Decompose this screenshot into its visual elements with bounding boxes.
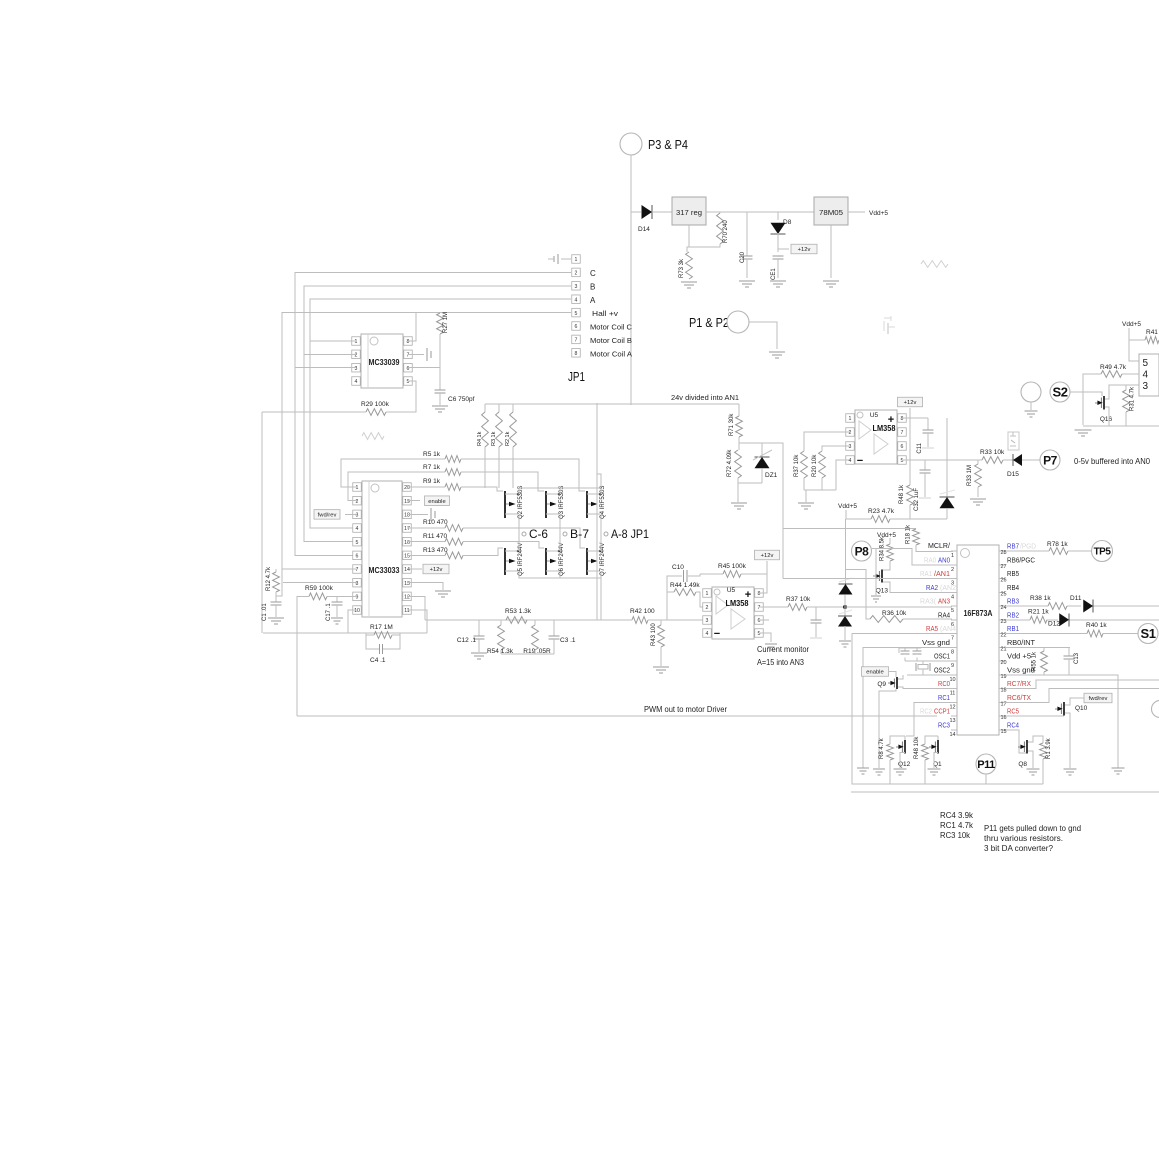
resistor R18 1k: [906, 524, 920, 545]
JP1 pin labels: [590, 269, 633, 359]
wire hall +v: [276, 313, 571, 596]
wire OSC circuit: [899, 648, 951, 675]
wire hall A: [310, 299, 571, 341]
capacitor C20: [740, 212, 753, 278]
net label Vdd+5 mid: [838, 503, 857, 510]
ground under C17: [331, 618, 343, 624]
wire divider node: [739, 437, 783, 579]
wire R9 to Q2 gate: [461, 487, 503, 491]
wire R37v R20 bottoms: [804, 460, 850, 490]
net label Vdd+5 P8: [877, 532, 896, 539]
svg-text:RC3 10k: RC3 10k: [940, 831, 971, 840]
wire MC33039 pin2: [304, 353, 356, 355]
resistor R11 470: [423, 533, 463, 545]
svg-text:fwd/rev: fwd/rev: [1089, 696, 1108, 702]
svg-text:RB1: RB1: [1007, 626, 1019, 633]
wire R13 to Q5 gate: [463, 548, 503, 555]
feedback R45 bracket: [700, 574, 767, 593]
svg-text:6: 6: [356, 554, 359, 560]
clamp diode upper: [839, 519, 853, 595]
svg-text:D15: D15: [1007, 471, 1019, 478]
svg-text:+12v: +12v: [904, 400, 917, 406]
svg-text:7: 7: [901, 430, 904, 436]
resistor R8 4.7k: [879, 736, 905, 784]
svg-text:MCLR/: MCLR/: [928, 543, 950, 550]
svg-text:10: 10: [354, 608, 360, 614]
resistor R5 1k: [423, 451, 461, 462]
wire column C-6: [518, 515, 520, 551]
svg-text:Q16: Q16: [1100, 416, 1113, 423]
svg-text:B-7: B-7: [570, 527, 589, 541]
net label enable Q9: [862, 667, 889, 677]
wire RB3 out: [1005, 605, 1159, 607]
ground under R37v: [798, 503, 814, 509]
resistor R33 10k: [980, 449, 1005, 463]
wire column A-8: [600, 515, 602, 551]
svg-text:D14: D14: [638, 226, 650, 233]
svg-text:OSC2: OSC2: [934, 667, 950, 674]
svg-text:A-8 JP1: A-8 JP1: [611, 527, 649, 541]
ground under Q1: [928, 769, 941, 775]
text 24v divided: [671, 393, 739, 402]
svg-text:Motor Coil A: Motor Coil A: [590, 350, 632, 359]
resistor R71 30k: [729, 413, 742, 437]
svg-text:C-6: C-6: [529, 527, 548, 541]
JP1 label: [568, 370, 585, 384]
svg-text:R29 100k: R29 100k: [361, 401, 390, 408]
svg-text:R72 4.09k: R72 4.09k: [727, 449, 733, 477]
resistor R10 470: [423, 519, 463, 531]
resistor R48 10k: [914, 736, 938, 784]
svg-text:A: A: [590, 296, 596, 305]
wire MC33033 pin17 to R10: [407, 527, 445, 529]
svg-text:19: 19: [404, 499, 410, 505]
ghost resistor below R29: [362, 433, 384, 440]
wire bottom boundary: [851, 791, 1159, 793]
diode D12: [1048, 613, 1069, 627]
svg-text:R12 4.7k: R12 4.7k: [266, 566, 272, 591]
ground Vss19: [1112, 768, 1125, 774]
svg-text:9: 9: [951, 663, 954, 669]
svg-text:AN3: AN3: [938, 599, 950, 606]
wire 24v vertical rail: [596, 403, 598, 620]
capacitor C1 .01: [262, 602, 282, 621]
resistor R70 240: [717, 212, 729, 246]
svg-text:4: 4: [951, 594, 954, 600]
svg-text:R9 1k: R9 1k: [423, 478, 441, 485]
capacitor C4 .1: [366, 635, 400, 664]
transistor Q5: [504, 543, 524, 576]
svg-text:3: 3: [1143, 381, 1149, 392]
svg-text:2: 2: [951, 567, 954, 573]
svg-text:5: 5: [951, 608, 954, 614]
wire RA5 to DA rail: [852, 633, 951, 635]
svg-text:R11 470: R11 470: [423, 533, 447, 540]
svg-text:AN0: AN0: [938, 557, 950, 564]
wire Q16 rail: [1083, 425, 1159, 427]
capacitor C17 .1: [326, 596, 343, 621]
text RC4 RC1 RC3 values: [940, 811, 974, 840]
svg-text:R18 1k: R18 1k: [906, 524, 912, 544]
svg-text:5: 5: [901, 458, 904, 464]
op-amp U5 current monitor: [703, 587, 764, 640]
svg-text:C4 .1: C4 .1: [370, 657, 386, 664]
resistor R59 100k: [305, 585, 334, 600]
svg-text:+12v: +12v: [798, 247, 811, 253]
svg-text:Hall +v: Hall +v: [592, 309, 618, 318]
svg-text:R40 1k: R40 1k: [1086, 622, 1107, 629]
svg-text:D11: D11: [1070, 595, 1082, 602]
svg-text:RA1: RA1: [920, 571, 932, 578]
wire column B-7: [559, 515, 561, 551]
wire P1P2 to ground: [749, 322, 777, 349]
wire AN1 bundle: [783, 578, 951, 580]
svg-text:R43 100: R43 100: [651, 623, 657, 646]
capacitor C11: [917, 418, 934, 454]
resistor R44 1.49k: [670, 582, 700, 595]
svg-text:LM358: LM358: [726, 598, 749, 608]
crystal: [916, 661, 930, 675]
wire AN1 feed line: [783, 528, 916, 530]
svg-text:1: 1: [355, 339, 358, 345]
ground under C20: [739, 281, 755, 287]
svg-text:U5: U5: [870, 412, 879, 419]
svg-text:4: 4: [706, 631, 709, 637]
transistor Q7: [586, 543, 606, 576]
ground under Q8: [1027, 769, 1040, 775]
JP1 pin1 series cap symbol: [548, 254, 571, 264]
svg-text:12: 12: [404, 595, 410, 601]
svg-text:15: 15: [404, 554, 410, 560]
wire pin5 bracket gnd: [759, 633, 771, 642]
net label fwd/rev Q10: [1084, 693, 1112, 703]
transistor Q16: [1095, 385, 1139, 426]
svg-text:12: 12: [949, 704, 955, 710]
svg-text:3: 3: [356, 513, 359, 519]
resistor R37 10k: [786, 596, 811, 610]
node P8: [852, 541, 872, 561]
svg-text:(AN4: (AN4: [940, 626, 956, 633]
svg-text:C1 .01: C1 .01: [262, 603, 268, 621]
svg-text:RA5: RA5: [926, 626, 938, 633]
capacitor R37 output cap: [810, 607, 822, 638]
resistor R40 1k: [1086, 622, 1107, 637]
svg-text:R53 1.3k: R53 1.3k: [505, 608, 532, 615]
svg-text:RC1: RC1: [938, 695, 950, 702]
wire RC4 to Q8: [1005, 730, 1026, 753]
wire MC33039 pin8 up to hall+v rail: [408, 313, 416, 341]
resistor R34 8.5k: [880, 536, 894, 561]
svg-text:R20 10k: R20 10k: [812, 454, 818, 477]
svg-text:P11: P11: [977, 759, 995, 771]
transistor Q13: [873, 561, 896, 595]
resistor R53 1.3k: [505, 608, 532, 623]
wire R59 left down: [297, 596, 309, 716]
regulator 78M05: [814, 197, 848, 225]
wire hall A to MC33033 pin4: [310, 341, 362, 528]
svg-text:8: 8: [575, 351, 578, 357]
svg-text:RB0/INT: RB0/INT: [1007, 640, 1036, 647]
wire pin10 rail to R17: [348, 632, 427, 634]
wire R20 top to pin3: [822, 446, 850, 451]
resistor R29 100k: [361, 401, 390, 415]
wire R37v top to pin2: [804, 432, 850, 451]
wire MC33033 pin8: [283, 582, 357, 584]
wire R10 to Q7 gate: [463, 528, 585, 548]
port circle right edge: [1152, 701, 1159, 718]
svg-text:MC33033: MC33033: [369, 565, 400, 575]
wire R7 to Q3 gate: [461, 472, 544, 491]
svg-text:S1: S1: [1141, 626, 1156, 641]
resistor R23 4.7k: [868, 508, 895, 522]
svg-text:R31 4.7k: R31 4.7k: [1130, 386, 1136, 411]
MC33039 pin7 decoupling symbol: [408, 348, 431, 361]
resistor R2 1k: [505, 404, 516, 488]
svg-text:Vss gnd: Vss gnd: [922, 640, 950, 647]
wire P11 stem: [985, 774, 987, 784]
wire Vss pin19: [1005, 675, 1118, 768]
svg-text:1: 1: [951, 553, 954, 559]
wire sense rail: [425, 619, 632, 621]
transistor Q4: [586, 486, 606, 519]
svg-text:−: −: [857, 455, 863, 467]
svg-text:6: 6: [575, 324, 578, 330]
svg-text:Q9: Q9: [877, 681, 886, 688]
wire R5 to Q4 gate: [461, 459, 585, 491]
svg-text:thru various resistors.: thru various resistors.: [984, 834, 1063, 843]
svg-text:1: 1: [356, 485, 359, 491]
text 0-5v buffered: [1074, 456, 1150, 466]
resistor R38 1k: [1030, 595, 1067, 609]
svg-text:A=15 into AN3: A=15 into AN3: [757, 658, 805, 667]
transistor Q3: [545, 486, 565, 519]
ground under C6: [432, 406, 448, 412]
svg-text:16F873A: 16F873A: [964, 608, 993, 618]
svg-text:S2: S2: [1053, 385, 1068, 400]
wire RC7/RX out: [1005, 680, 1159, 689]
svg-text:R73 3k: R73 3k: [679, 258, 685, 278]
wire pin5 out: [902, 459, 982, 461]
svg-text:3: 3: [706, 618, 709, 624]
svg-text:JP1: JP1: [568, 370, 585, 384]
IC 16F873A: [949, 545, 1006, 738]
svg-text:13: 13: [949, 718, 955, 724]
resistor R20 10k: [812, 451, 825, 478]
wire AN0 bundle: [872, 549, 951, 565]
capacitor C12 .1: [457, 620, 485, 652]
wire R11 to Q6 gate: [463, 542, 544, 548]
svg-text:R8 4.7k: R8 4.7k: [879, 737, 885, 759]
resistor R27 1M: [437, 312, 449, 368]
wire 78M05 out: [848, 211, 865, 213]
svg-text:R5 1k: R5 1k: [423, 451, 441, 458]
svg-text:RC0: RC0: [938, 681, 950, 688]
svg-text:Q13: Q13: [876, 588, 889, 595]
svg-text:P7: P7: [1043, 453, 1058, 467]
wire 317reg out: [706, 211, 814, 213]
resistor R48 1k: [899, 418, 913, 519]
ground under CE1: [770, 281, 786, 287]
svg-text:5: 5: [575, 311, 578, 317]
ground under R73: [681, 282, 697, 288]
svg-text:RA2: RA2: [926, 585, 938, 592]
resistor R45 100k: [718, 563, 747, 577]
diode D15: [1007, 454, 1040, 478]
svg-text:5: 5: [1143, 358, 1149, 369]
svg-text:R59 100k: R59 100k: [305, 585, 334, 592]
wire MC33033 pin2 up to R7: [348, 472, 445, 501]
wire MC33039 pin5 to R29: [386, 381, 416, 412]
wire node to R44: [667, 592, 674, 620]
svg-text:RC4: RC4: [1007, 722, 1019, 729]
wire P8 to Q13 gate: [875, 549, 877, 570]
node C-6: [522, 527, 548, 541]
svg-text:RC7/RX: RC7/RX: [1007, 681, 1031, 688]
opto symbol above D15: [1008, 432, 1019, 450]
wire MC33039 pin1: [310, 340, 356, 342]
wire 78M05 gnd: [830, 225, 832, 278]
port circle plain near S2: [1021, 382, 1041, 410]
svg-text:24v divided into AN1: 24v divided into AN1: [671, 393, 739, 402]
resistor R31 4.7k: [1123, 385, 1136, 426]
svg-text:3: 3: [355, 366, 358, 372]
svg-text:20: 20: [1000, 660, 1006, 666]
svg-text:U5: U5: [727, 587, 736, 594]
svg-text:R49 4.7k: R49 4.7k: [1100, 364, 1127, 371]
resistor R54 1.3k: [487, 620, 514, 655]
svg-text:(AN2: (AN2: [940, 585, 956, 592]
wire top drain rail: [519, 474, 601, 494]
wire drain stubs: [560, 488, 601, 494]
svg-text:2: 2: [849, 430, 852, 436]
clamp diode lower: [838, 595, 852, 640]
svg-text:C20: C20: [740, 251, 746, 263]
wire 24v to R71: [734, 404, 739, 416]
ground under P1P2: [769, 352, 785, 358]
svg-text:OSC1: OSC1: [934, 654, 950, 661]
node P3 & P4 input: [620, 133, 688, 155]
resistor R78 1k: [1005, 541, 1092, 554]
resistor R55 1k: [1032, 647, 1048, 675]
svg-text:R23 4.7k: R23 4.7k: [868, 508, 895, 515]
connector right edge: [1139, 354, 1159, 396]
net label +12v buffer: [898, 397, 923, 407]
node S1: [1138, 624, 1158, 644]
svg-text:Q8: Q8: [1018, 761, 1027, 768]
svg-text:R41 1: R41 1: [1146, 329, 1159, 336]
svg-text:5: 5: [356, 540, 359, 546]
ground Vss8: [857, 768, 869, 774]
capacitor CE1: [771, 256, 784, 280]
wire Q12 feed: [906, 735, 914, 737]
wire R18 to MCLR: [916, 545, 953, 552]
wire MC33039 pin3: [295, 367, 356, 369]
svg-text:14: 14: [949, 732, 955, 738]
svg-text:C32 1uF: C32 1uF: [914, 488, 920, 511]
svg-text:RA0: RA0: [924, 557, 936, 564]
svg-text:Vdd+5: Vdd+5: [838, 503, 857, 510]
svg-text:fwd/rev: fwd/rev: [318, 513, 337, 519]
svg-text:B: B: [590, 283, 595, 292]
resistor R4 1k: [477, 404, 488, 488]
ground under plain circle: [1025, 411, 1038, 417]
svg-text:4: 4: [1143, 370, 1149, 381]
svg-text:LM358: LM358: [873, 423, 896, 433]
ghost resistor top right: [921, 261, 948, 268]
svg-text:C3 .1: C3 .1: [560, 637, 576, 644]
svg-text:RC2: RC2: [920, 709, 932, 716]
resistor R3 1k: [491, 404, 502, 488]
svg-text:7: 7: [758, 605, 761, 611]
svg-text:27: 27: [1000, 564, 1006, 570]
svg-text:R48 10k: R48 10k: [914, 736, 920, 759]
svg-text:2: 2: [356, 499, 359, 505]
node P11: [976, 754, 996, 774]
svg-text:Q10: Q10: [1075, 705, 1088, 712]
svg-text:1: 1: [849, 416, 852, 422]
ground under R72: [731, 503, 747, 509]
diode D11: [1070, 595, 1093, 613]
svg-text:DZ1: DZ1: [765, 472, 778, 479]
connector JP1 pin squares: [572, 255, 581, 357]
wire hall B to MC33033 pin5: [304, 354, 362, 541]
svg-text:RB2: RB2: [1007, 612, 1019, 619]
wire RB1 to S1: [1005, 633, 1138, 635]
PIC right pin names: [1007, 544, 1036, 730]
wire DA rail: [852, 634, 1043, 785]
capacitor C6 750pf: [435, 390, 475, 405]
svg-text:R1 3.9k: R1 3.9k: [1046, 737, 1052, 759]
wire RC1 to Q1: [914, 702, 951, 736]
resistor R9 1k: [423, 478, 461, 490]
svg-text:C13: C13: [1074, 652, 1080, 664]
svg-text:TP5: TP5: [1094, 547, 1112, 558]
ground pin13: [435, 591, 451, 597]
wire hall C: [295, 272, 571, 367]
wire R37 gnd stem: [805, 490, 807, 502]
svg-text:11: 11: [404, 608, 409, 614]
svg-text:C12 .1: C12 .1: [457, 637, 477, 644]
svg-text:3: 3: [849, 444, 852, 450]
svg-text:8: 8: [901, 416, 904, 422]
wire P3P4 down to 24v rail: [630, 155, 632, 405]
svg-text:R27 1M: R27 1M: [443, 312, 449, 333]
svg-text:11: 11: [950, 691, 956, 697]
svg-text:RC3: RC3: [938, 722, 950, 729]
ghost symbol near P1P2: [884, 316, 895, 334]
resistor R43 100: [651, 620, 664, 666]
svg-text:R44 1.49k: R44 1.49k: [670, 582, 700, 589]
wire MC33033 pin20 to R9: [407, 486, 445, 488]
svg-text:Vdd+5: Vdd+5: [869, 210, 888, 217]
resistor R21 1k: [1028, 609, 1049, 624]
PIC left pin names: [920, 557, 956, 729]
wire sources to sense rail: [600, 578, 602, 620]
svg-text:RB3: RB3: [1007, 599, 1019, 606]
wire RB2 out: [1005, 619, 1159, 621]
wire MC33033 pin11 bracket: [407, 610, 427, 633]
svg-text:RC4 3.9k: RC4 3.9k: [940, 811, 974, 820]
wire clamp top to R36: [846, 570, 871, 620]
svg-text:3 bit DA converter?: 3 bit DA converter?: [984, 844, 1054, 853]
capacitor C10: [667, 564, 700, 606]
wire R27 to C6: [439, 368, 441, 390]
wire MC33033 pin15 to R13: [407, 554, 445, 556]
svg-text:R70 240: R70 240: [723, 220, 729, 243]
svg-text:R48 1k: R48 1k: [899, 484, 905, 504]
ground under R33 1M: [970, 499, 986, 505]
wire RB0/INT: [1005, 646, 1070, 648]
